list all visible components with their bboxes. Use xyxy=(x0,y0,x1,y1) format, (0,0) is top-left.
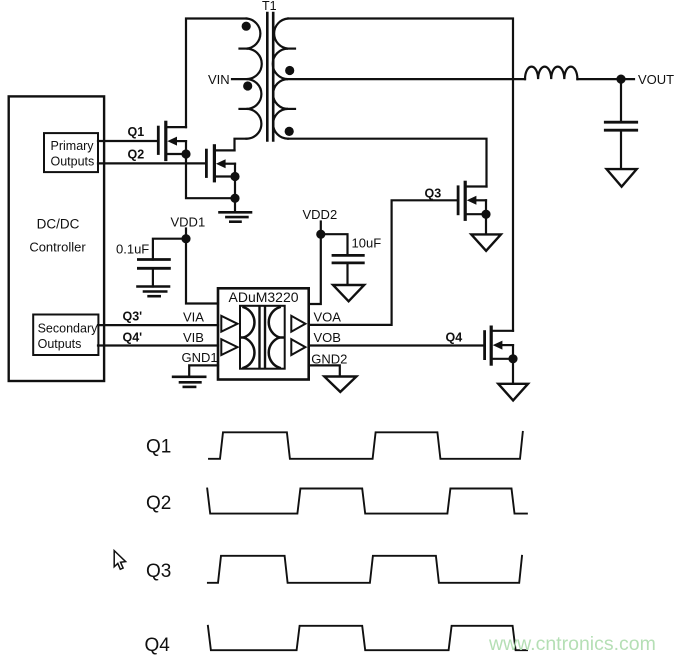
svg-text:Controller: Controller xyxy=(29,240,86,255)
svg-text:DC/DC: DC/DC xyxy=(37,217,80,232)
wire Q3 gate to VOA xyxy=(309,200,457,325)
buffer VIB triangle xyxy=(221,339,237,355)
buffer VIA triangle xyxy=(221,316,237,332)
wire GND2 xyxy=(309,365,340,376)
ground Q4 triangle xyxy=(498,384,528,401)
ground 10uF triangle xyxy=(333,285,364,301)
svg-text:Q3: Q3 xyxy=(146,561,171,582)
svg-text:Q2: Q2 xyxy=(128,148,145,162)
svg-text:Q4: Q4 xyxy=(145,635,171,656)
ground Q3 triangle xyxy=(471,234,501,250)
svg-text:VOA: VOA xyxy=(314,310,342,325)
transistor Q1 xyxy=(158,122,186,159)
wire T1 secondary top to Q4 drain xyxy=(288,19,513,331)
wire VOUT node to output capacitor xyxy=(620,79,622,122)
capacitor 10uF xyxy=(333,255,363,285)
inner core lines xyxy=(258,307,260,368)
transistor Q3 xyxy=(458,182,486,219)
inner right winding xyxy=(269,307,280,368)
primary phase dot top xyxy=(242,22,251,31)
mouse cursor xyxy=(114,551,125,570)
wire VIB input xyxy=(98,344,218,346)
junction common source ground node xyxy=(230,194,239,203)
svg-text:VIN: VIN xyxy=(208,72,230,87)
svg-text:VOB: VOB xyxy=(314,330,341,345)
buffer VOB triangle xyxy=(291,339,305,355)
svg-text:Q1: Q1 xyxy=(146,437,171,458)
DC/DC controller box xyxy=(9,96,104,381)
secondary winding xyxy=(273,19,288,139)
svg-text:Q4: Q4 xyxy=(446,331,463,345)
wire Q1 drain to T1 primary top xyxy=(186,19,247,128)
svg-text:VDD1: VDD1 xyxy=(171,215,206,230)
primary cusp ticks xyxy=(240,47,247,49)
node VDD1 stub xyxy=(185,229,187,239)
secondary cusp ticks xyxy=(288,47,295,49)
svg-text:VDD2: VDD2 xyxy=(303,207,338,222)
secondary phase dot above tap xyxy=(285,66,294,75)
wire Q2 drain to T1 primary bottom xyxy=(235,139,247,151)
wire inductor to VOUT node xyxy=(577,78,634,80)
ground GND2 triangle xyxy=(324,377,356,392)
waveform trace Q2 xyxy=(207,489,527,514)
svg-text:Q3': Q3' xyxy=(123,310,143,324)
ground primary side xyxy=(220,198,252,222)
junction VOUT node xyxy=(616,75,625,84)
isolator U1 ADuM3220 xyxy=(218,288,309,379)
svg-text:Q4': Q4' xyxy=(123,331,143,345)
svg-text:Secondary: Secondary xyxy=(38,322,99,336)
svg-text:VIB: VIB xyxy=(183,330,204,345)
wire Q3 source to ground xyxy=(485,214,487,234)
transistor Q2 xyxy=(206,146,235,181)
svg-text:10uF: 10uF xyxy=(352,236,382,251)
primary winding xyxy=(247,19,262,139)
waveform trace Q3 xyxy=(208,556,522,583)
svg-text:VOUT: VOUT xyxy=(638,72,674,87)
svg-text:GND1: GND1 xyxy=(182,350,218,365)
waveform trace Q4 xyxy=(208,626,527,650)
svg-text:ADuM3220: ADuM3220 xyxy=(229,289,299,305)
wire VDD1 node to 0.1uF cap xyxy=(153,239,186,260)
wire VDD1 node to chip VDD1 pin xyxy=(186,239,218,304)
ground GND1 xyxy=(173,377,205,387)
junction Q2 source node xyxy=(230,172,239,181)
svg-text:Outputs: Outputs xyxy=(38,337,82,351)
transformer T1 xyxy=(208,0,295,141)
wire Q4 source to ground xyxy=(512,359,514,384)
junction VDD1 node xyxy=(181,234,190,243)
primary phase dot below tap xyxy=(243,81,252,90)
inner transformer box xyxy=(240,306,285,369)
wire T1 secondary tap to inductor xyxy=(288,78,525,80)
wire Q1 gate xyxy=(98,140,157,142)
junction Q1 source node xyxy=(181,149,190,158)
capacitor 0.1uF xyxy=(138,260,169,287)
wire Q2 gate xyxy=(98,162,205,164)
svg-text:Outputs: Outputs xyxy=(51,155,95,169)
secondary outputs box xyxy=(33,315,98,356)
svg-text:Q3: Q3 xyxy=(425,187,442,201)
waveform trace Q1 xyxy=(209,432,523,459)
wire GND1 xyxy=(189,365,218,376)
wire VDD2 node to chip VDD2 pin xyxy=(309,234,321,304)
transistor Q4 xyxy=(485,327,513,364)
transformer core xyxy=(266,13,269,141)
buffer VOA triangle xyxy=(291,316,305,332)
svg-text:VIA: VIA xyxy=(183,310,204,325)
junction Q3 source node xyxy=(481,210,490,219)
wire T1 secondary bottom to Q3 drain xyxy=(288,139,487,187)
wire VDD2 node to 10uF cap xyxy=(321,234,348,255)
secondary phase dot bottom xyxy=(285,127,294,136)
svg-text:T1: T1 xyxy=(262,0,277,13)
svg-text:Primary: Primary xyxy=(51,139,95,153)
svg-text:Q2: Q2 xyxy=(146,493,171,514)
capacitor output xyxy=(605,122,636,169)
ground 0.1uF xyxy=(138,287,170,297)
svg-text:0.1uF: 0.1uF xyxy=(116,242,149,257)
svg-text:Q1: Q1 xyxy=(128,125,145,139)
wire common source to ground xyxy=(186,154,235,198)
inner left winding xyxy=(244,307,255,368)
junction VDD2 node xyxy=(316,230,325,239)
inductor L1 xyxy=(525,67,577,80)
svg-text:GND2: GND2 xyxy=(311,352,347,367)
junction Q4 source node xyxy=(508,354,517,363)
wire VIA input xyxy=(98,324,218,326)
VIN tap wire xyxy=(232,78,247,80)
svg-text:www.cntronics.com: www.cntronics.com xyxy=(488,633,656,655)
wire Q4 gate to VOB xyxy=(309,344,484,346)
ground output triangle xyxy=(607,169,637,187)
node VDD2 stub xyxy=(320,222,322,235)
primary outputs box xyxy=(44,133,98,172)
